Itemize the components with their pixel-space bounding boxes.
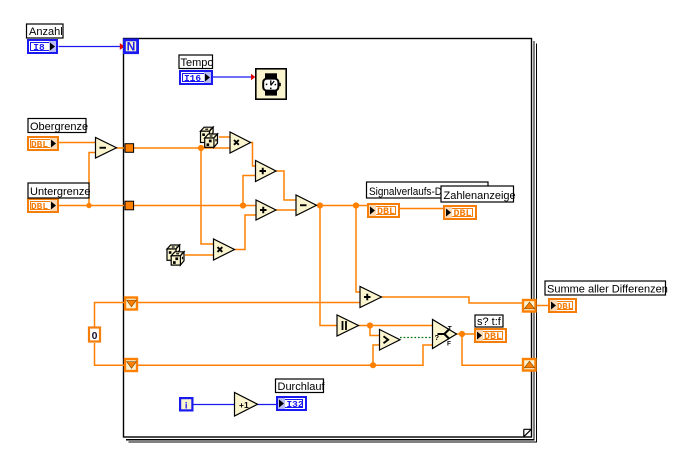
svg-text:Zahlenanzeige: Zahlenanzeige [444, 190, 516, 202]
svg-text:I16: I16 [184, 73, 201, 84]
svg-text:i: i [185, 400, 188, 411]
svg-text:I8: I8 [33, 42, 45, 53]
svg-text:DBL: DBL [557, 302, 573, 312]
svg-text:DBL: DBL [453, 209, 471, 220]
svg-text:Obergrenze: Obergrenze [30, 121, 88, 133]
svg-text:DBL: DBL [377, 207, 395, 218]
svg-text:Summe aller Differenzen: Summe aller Differenzen [547, 283, 668, 295]
svg-text:+1: +1 [239, 400, 249, 410]
svg-text:F: F [447, 340, 451, 347]
svg-text:Anzahl: Anzahl [29, 26, 63, 38]
svg-text:T: T [448, 326, 452, 333]
svg-text:DBL: DBL [31, 201, 48, 212]
svg-text:Untergrenze: Untergrenze [30, 186, 91, 198]
svg-text:DBL: DBL [484, 332, 502, 343]
svg-text:N: N [127, 40, 136, 54]
svg-text:s? t:f: s? t:f [477, 316, 502, 328]
svg-text:0: 0 [92, 330, 98, 342]
svg-text:I32: I32 [286, 399, 303, 410]
svg-text:Tempo: Tempo [181, 57, 214, 69]
svg-text:Signalverlaufs-D: Signalverlaufs-D [369, 186, 442, 198]
svg-text:Durchlauf: Durchlauf [278, 381, 326, 393]
svg-text:DBL: DBL [31, 139, 48, 150]
